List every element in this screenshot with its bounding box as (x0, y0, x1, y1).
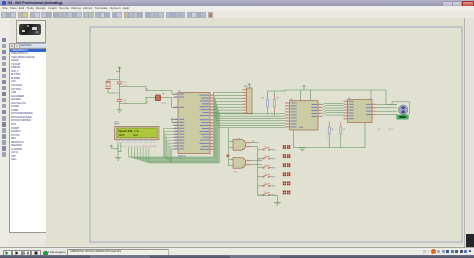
wire (118, 143, 121, 152)
svg-text:P2: P2 (252, 141, 254, 143)
wire gate U5B outputs (251, 160, 262, 162)
wire (119, 84, 121, 100)
label rev (283, 163, 286, 167)
label dec (283, 181, 286, 185)
svg-text:7: 7 (134, 146, 135, 148)
svg-text:P1.1: P1.1 (273, 158, 276, 160)
wire ground rail (294, 123, 366, 148)
ground (117, 109, 122, 111)
ground (274, 201, 281, 203)
button S2 (258, 158, 263, 160)
taskbar (0, 255, 474, 258)
driver U2 right pins (318, 104, 322, 106)
wire (386, 90, 397, 104)
wire (111, 148, 118, 151)
menu bar (0, 6, 474, 11)
wire (228, 128, 230, 166)
button S5 (258, 185, 263, 187)
wire bus vertical bundle (212, 93, 214, 157)
power VCC4 EA (171, 119, 173, 123)
motor M1 (399, 105, 408, 114)
label fwd (283, 154, 286, 158)
respack RP1 pins (243, 89, 247, 91)
wire bus LCD data band (129, 147, 214, 157)
svg-text:left: left (118, 133, 125, 137)
wire (229, 141, 233, 143)
svg-text:U1: U1 (178, 90, 180, 92)
svg-text:8: 8 (137, 146, 138, 148)
svg-text:P1.2: P1.2 (273, 167, 276, 169)
svg-text:11: 11 (146, 146, 148, 148)
svg-text:10: 10 (143, 146, 145, 148)
resistor R7 (340, 122, 342, 127)
svg-text:R1: R1 (162, 94, 164, 96)
mcu U1 left pins (173, 93, 178, 95)
motor rpm display (397, 115, 408, 119)
svg-text:X1: X1 (146, 89, 148, 91)
wire (117, 143, 119, 158)
svg-text:C1: C1 (124, 82, 126, 84)
capacitor C1 (117, 81, 122, 83)
resistor R2 (267, 95, 269, 99)
svg-text:12: 12 (149, 146, 151, 148)
resistor R3 (273, 95, 275, 99)
label stop (283, 145, 286, 149)
wire (161, 98, 175, 108)
capacitor C3 reset (155, 95, 160, 101)
object selector panel (9, 18, 46, 246)
driver U4 right pins (372, 103, 376, 105)
wire (274, 90, 285, 91)
ground (299, 147, 306, 149)
lcd LCD1 LM016L (115, 126, 160, 139)
wire button bus (257, 147, 259, 196)
svg-text:GND: GND (378, 129, 382, 131)
svg-text:P1.3: P1.3 (273, 177, 276, 179)
wire (258, 195, 278, 202)
ground (115, 156, 121, 158)
wire (267, 112, 269, 114)
terminal input (227, 154, 230, 157)
wire motor leads (376, 103, 397, 105)
wire (108, 79, 120, 81)
button S6 (258, 194, 263, 196)
wire (392, 102, 409, 114)
svg-text:5: 5 (128, 146, 129, 148)
svg-text:4: 4 (125, 146, 126, 148)
svg-text:1k: 1k (326, 137, 328, 139)
button S4 (258, 176, 263, 178)
svg-text:R3: R3 (277, 97, 279, 99)
wire VCC rail (285, 89, 386, 91)
svg-text:1k: 1k (338, 137, 340, 139)
wire (370, 90, 372, 100)
svg-text:run: run (133, 134, 138, 137)
gate U5B pins (246, 160, 250, 162)
sheet border (90, 27, 462, 242)
svg-text:R2: R2 (262, 97, 264, 99)
label acc (283, 172, 286, 176)
crystal X1 (105, 80, 111, 82)
gate U5B (233, 157, 246, 168)
power VCC1 (116, 68, 120, 72)
svg-text:C2: C2 (124, 100, 126, 102)
wire (152, 97, 155, 99)
driver U4 left pins (344, 100, 348, 102)
wire bus P3 drops (163, 128, 173, 157)
wire (119, 102, 121, 110)
svg-text:RP1: RP1 (244, 86, 248, 88)
gate U5A pins (246, 142, 250, 144)
wire gate U5A outputs (251, 142, 259, 144)
svg-text:LCD1: LCD1 (114, 121, 119, 123)
wire XTAL1 net (120, 87, 175, 95)
wire (119, 68, 121, 82)
svg-text:R7: R7 (343, 129, 345, 131)
svg-text:13: 13 (151, 146, 153, 148)
wire bus U2 to U4 (322, 103, 344, 104)
wire bus P0 to RP1 (213, 93, 242, 96)
svg-text:U5:B: U5:B (234, 172, 237, 174)
label start (283, 191, 286, 195)
schematic canvas (46, 18, 464, 246)
wire (268, 91, 275, 95)
title bar (0, 0, 474, 7)
svg-text:14: 14 (154, 146, 156, 148)
svg-text:6: 6 (131, 146, 132, 148)
wire (300, 90, 302, 101)
driver U2 left pins (285, 102, 290, 104)
svg-text:9: 9 (140, 146, 141, 148)
svg-text:LM016L: LM016L (114, 124, 120, 126)
svg-text:P3: P3 (258, 159, 260, 161)
svg-text:12MHz: 12MHz (162, 103, 167, 105)
capacitor C2 (117, 99, 122, 101)
svg-text:3: 3 (122, 146, 123, 148)
power VCC3 (303, 86, 305, 90)
svg-text:L298: L298 (299, 127, 303, 129)
svg-text:P1.4: P1.4 (273, 186, 276, 188)
power VCC2 (248, 84, 250, 88)
power VDD (110, 146, 112, 149)
svg-text:MOTOR: MOTOR (388, 129, 394, 131)
status bar (0, 247, 474, 256)
left mode toolbar (0, 18, 10, 246)
wire XTAL2 net (120, 97, 153, 103)
wire bus to U2 (213, 113, 285, 115)
svg-text:R6: R6 (332, 129, 334, 131)
button S1 (258, 149, 263, 151)
svg-text:2: 2 (120, 146, 121, 148)
button S3 (258, 167, 263, 169)
mcu U1 right pins (210, 94, 214, 96)
lcd pins (116, 140, 118, 142)
wire (108, 88, 120, 93)
resistor R6 (328, 122, 330, 127)
svg-text:Speed=420 r/m: Speed=420 r/m (118, 129, 139, 133)
toolbar (0, 11, 474, 19)
svg-text:P1.0: P1.0 (273, 149, 276, 151)
wire (229, 159, 233, 161)
svg-text:1: 1 (117, 146, 118, 148)
svg-text:X2: X2 (146, 102, 148, 104)
